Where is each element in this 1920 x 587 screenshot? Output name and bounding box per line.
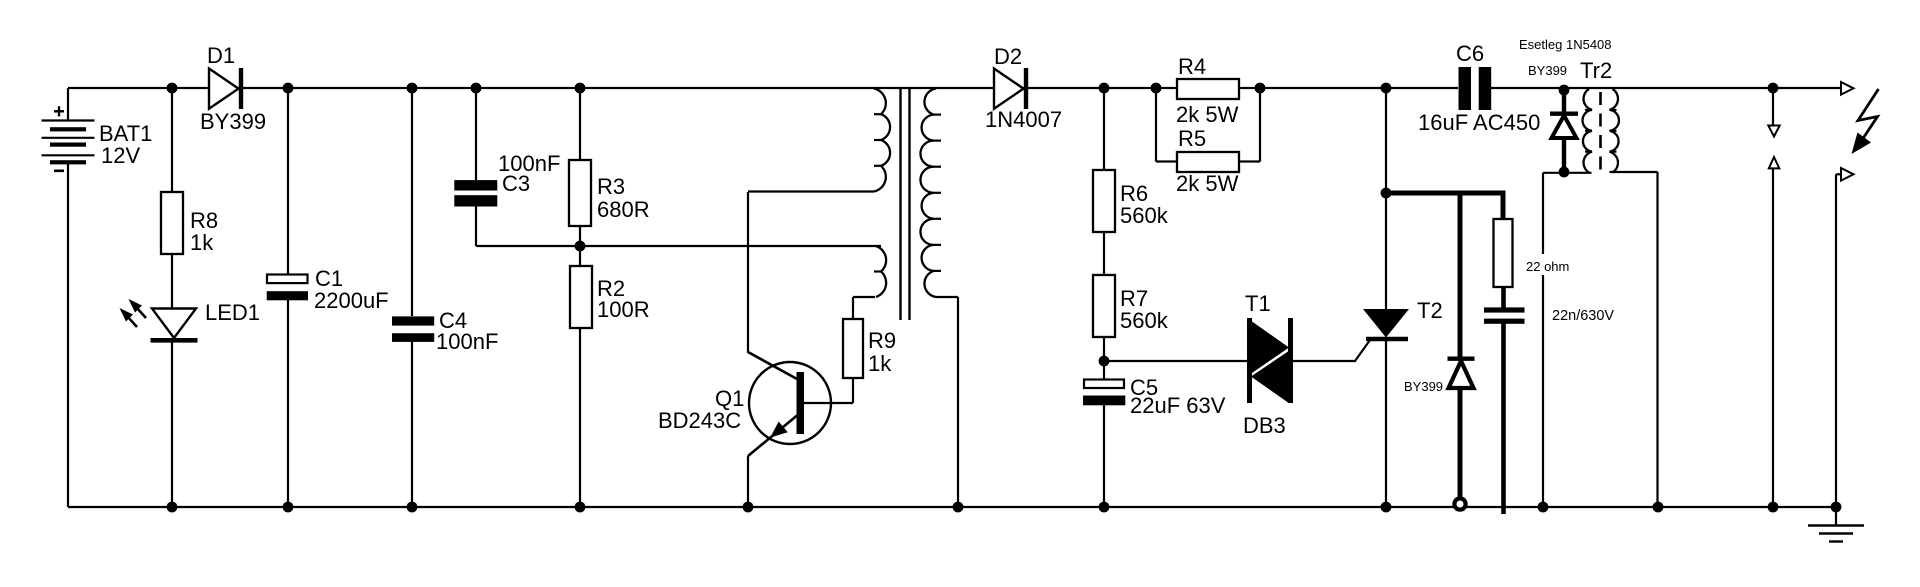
diode D1 (209, 68, 243, 109)
node bottom rail / T2 (1381, 502, 1392, 513)
label 1N4007 (985, 107, 1062, 132)
label D2 (994, 44, 1022, 69)
wire junction to T1 (1104, 360, 1247, 362)
resistor R9 (843, 319, 863, 378)
svg-text:D1: D1 (207, 43, 235, 68)
connector ring (1454, 498, 1465, 509)
transformer Tr1 core (901, 88, 910, 320)
svg-text:C3: C3 (502, 171, 530, 196)
label Esetleg 1N5408 (1519, 37, 1612, 52)
wire Tr2 primary bottom lead (1543, 172, 1592, 174)
label 12V (101, 143, 140, 168)
svg-text:680R: 680R (597, 197, 650, 222)
svg-text:2k 5W: 2k 5W (1176, 102, 1239, 127)
svg-text:22n/630V: 22n/630V (1552, 308, 1614, 324)
resistor R7 (1093, 275, 1115, 337)
wire C3 bottom (475, 207, 477, 247)
wire R8 to LED1 (171, 254, 173, 309)
wire node to Tr1 feedback winding (580, 245, 881, 247)
wire C3 top (475, 88, 477, 180)
label C5 (1130, 375, 1158, 400)
node Tr2 primary bottom (1559, 167, 1570, 178)
label R2 (597, 276, 625, 301)
label BD243C (658, 408, 741, 433)
node top rail / R4 right (1255, 83, 1266, 94)
svg-text:DB3: DB3 (1243, 413, 1286, 438)
wire C4 top (411, 88, 413, 316)
node bottom rail / Tr2 secondary (1653, 502, 1664, 513)
svg-text:1k: 1k (190, 230, 214, 255)
svg-text:Tr2: Tr2 (1580, 58, 1612, 83)
wire T2 cathode (1385, 341, 1387, 507)
label Tr2 (1580, 58, 1612, 83)
ground (1808, 507, 1864, 542)
node top rail / T2 (1381, 83, 1392, 94)
wire R3 bottom (579, 226, 581, 246)
svg-text:16uF AC450: 16uF AC450 (1418, 110, 1540, 135)
capacitor C1 (267, 275, 308, 301)
transformer Tr1 secondary winding (920, 89, 941, 298)
label 22uF 63V (1130, 393, 1226, 418)
label 560k (R6) (1120, 203, 1169, 228)
wire R6 top (1103, 88, 1105, 170)
resistor R8 (161, 192, 183, 254)
wire Tr1 feedback bottom to R9 (853, 296, 875, 298)
svg-text:T2: T2 (1417, 298, 1443, 323)
capacitor 22n/630V (1484, 307, 1525, 323)
wire Tr1 secondary bottom (936, 297, 958, 507)
label Q1 (715, 386, 744, 411)
wire R5 left stub (1156, 88, 1177, 162)
svg-text:R3: R3 (597, 174, 625, 199)
wire Tr2 secondary bottom lead (1610, 171, 1658, 173)
resistor 22 ohm (1494, 219, 1513, 287)
svg-text:Esetleg 1N5408: Esetleg 1N5408 (1519, 37, 1612, 52)
svg-text:22 ohm: 22 ohm (1526, 259, 1569, 274)
label R5 (1178, 126, 1206, 151)
label DB3 (1243, 413, 1286, 438)
wire 22ohm to 22n cap (1501, 287, 1506, 308)
resistor R2 (570, 266, 592, 328)
node bottom rail / Tr2 primary (1538, 502, 1549, 513)
wire C1 top (287, 88, 289, 275)
diac T1 (1250, 318, 1291, 403)
node R7/C5/T1 junction (1099, 356, 1110, 367)
node bottom rail / C1 (283, 502, 294, 513)
terminal output return (1836, 168, 1854, 181)
wire Tr1 primary bottom to collector (748, 190, 874, 192)
thyristor T2 (1355, 309, 1409, 361)
wire R6 to R7 (1103, 232, 1105, 275)
wire spark gap upper (1772, 88, 1774, 126)
wire R5 right stub (1239, 88, 1260, 162)
wire R9 bottom lead (852, 378, 854, 403)
label 22n/630V (1552, 308, 1614, 324)
label 680R (597, 197, 650, 222)
node R3/R2/C3 junction (575, 241, 586, 252)
wire R7 to C5 (1103, 337, 1105, 380)
wire C3 to node (476, 245, 580, 247)
label R9 (868, 328, 896, 353)
label BY399 (D1) (200, 109, 266, 134)
svg-text:R4: R4 (1178, 54, 1206, 79)
spark gap lower electrode (1769, 157, 1780, 168)
label C4 (439, 308, 467, 333)
label 100nF (C4) (436, 329, 498, 354)
node bottom rail / C4 (407, 502, 418, 513)
label C6 (1456, 41, 1484, 66)
label 22 ohm (1522, 254, 1574, 275)
svg-text:560k: 560k (1120, 203, 1169, 228)
label LED1 (205, 300, 260, 325)
capacitor C6 (1459, 67, 1492, 110)
transformer Tr2 primary winding (1583, 89, 1592, 173)
svg-text:LED1: LED1 (205, 300, 260, 325)
node top rail / R3 (575, 83, 586, 94)
wire return terminal down (1835, 174, 1837, 507)
label R6 (1120, 181, 1148, 206)
label 16uF AC450 (1418, 110, 1540, 135)
wire R2 bottom (579, 328, 581, 507)
node Tr2 primary top (1559, 85, 1570, 96)
spark lightning bolt (1852, 89, 1879, 154)
resistor R4 (1177, 79, 1239, 99)
svg-text:BY399: BY399 (1528, 63, 1567, 78)
node bottom rail / LED branch (167, 502, 178, 513)
label 100R (597, 297, 650, 322)
svg-text:R9: R9 (868, 328, 896, 353)
label 1k (R8) (190, 230, 214, 255)
capacitor C5 (1083, 380, 1125, 406)
spark gap upper electrode (1768, 126, 1779, 137)
resistor R6 (1093, 170, 1115, 232)
wire snubber bus (1386, 191, 1502, 196)
diode D2 (994, 68, 1028, 109)
wire R8 top (171, 88, 173, 192)
node T2 / snubber bus (1381, 188, 1392, 199)
wire Tr2 secondary return (1656, 172, 1658, 507)
wire spark gap lower (1772, 169, 1774, 508)
node top rail / spark gap (1768, 83, 1779, 94)
wire left rail (67, 88, 69, 121)
capacitor C3 (454, 180, 497, 206)
svg-text:560k: 560k (1120, 308, 1169, 333)
wire collector vertical (747, 192, 749, 353)
wire 22n cap to bottom (1501, 324, 1506, 515)
label T1 (1245, 291, 1271, 316)
svg-text:D2: D2 (994, 44, 1022, 69)
svg-text:BD243C: BD243C (658, 408, 741, 433)
node top rail / R6 branch (1099, 83, 1110, 94)
node top rail / C4 (407, 83, 418, 94)
svg-text:BY399: BY399 (200, 109, 266, 134)
svg-text:2k 5W: 2k 5W (1176, 171, 1239, 196)
wire LED1 bottom (171, 342, 173, 507)
wire C1 bottom (287, 300, 289, 507)
node top rail / R4 left (1151, 83, 1162, 94)
label 1k (R9) (868, 351, 892, 376)
capacitor C4 (392, 316, 434, 342)
label 100nF (C3) (498, 151, 560, 176)
label BY399 (snubber) (1404, 379, 1443, 394)
wire top rail right segment (1491, 87, 1841, 89)
node bottom rail / C5 (1099, 502, 1110, 513)
label C3 (502, 171, 530, 196)
label 560k (R7) (1120, 308, 1169, 333)
node bottom rail / Q1 emitter (743, 502, 754, 513)
wire T1 to T2 gate (1293, 360, 1356, 362)
wire C4 bottom (411, 342, 413, 507)
node top rail / C3 (471, 83, 482, 94)
transformer Tr2 secondary winding (1610, 89, 1619, 173)
label C1 (315, 266, 343, 291)
svg-text:R5: R5 (1178, 126, 1206, 151)
wire R3 top (579, 88, 581, 160)
label R8 (190, 208, 218, 233)
node bottom rail / R2 (575, 502, 586, 513)
diode BY399 (Tr2) (1550, 89, 1578, 172)
battery BAT1 (42, 106, 95, 171)
transformer Tr2 core (1599, 92, 1602, 170)
svg-text:C6: C6 (1456, 41, 1484, 66)
svg-text:BY399: BY399 (1404, 379, 1443, 394)
node bottom rail / return (1831, 502, 1842, 513)
svg-text:T1: T1 (1245, 291, 1271, 316)
svg-text:100nF: 100nF (436, 329, 498, 354)
node bottom rail / Tr1 secondary (953, 502, 964, 513)
label R4 (1178, 54, 1206, 79)
svg-text:12V: 12V (101, 143, 140, 168)
node top rail / R8 branch (167, 83, 178, 94)
transformer Tr1 feedback winding (874, 246, 886, 297)
resistor R3 (569, 160, 591, 226)
label D1 (207, 43, 235, 68)
transistor Q1 (748, 352, 831, 456)
svg-text:1k: 1k (868, 351, 892, 376)
resistor R5 (1177, 152, 1239, 172)
LED LED1 (120, 299, 198, 343)
wire BY399 branch bottom (1458, 387, 1463, 499)
label R3 (597, 174, 625, 199)
wire T2 anode (1385, 88, 1387, 310)
node bottom rail / spark gap (1768, 502, 1779, 513)
svg-text:2200uF: 2200uF (314, 288, 389, 313)
label T2 (1417, 298, 1443, 323)
wire R9 top lead (852, 297, 854, 319)
wire BY399 branch top (1458, 191, 1463, 358)
diode BY399 (snubber) (1448, 359, 1475, 388)
wire top rail left segment (68, 87, 1458, 89)
label 2200uF (314, 288, 389, 313)
wire left rail lower (67, 163, 69, 507)
wire Q1 base to R9 (804, 402, 853, 404)
wire Tr2 primary return (1542, 173, 1544, 507)
label 2k 5W (R4) (1176, 102, 1239, 127)
wire snubber branch down (1501, 191, 1506, 220)
svg-text:22uF 63V: 22uF 63V (1130, 393, 1226, 418)
label 2k 5W (R5) (1176, 171, 1239, 196)
wire R2 top (579, 246, 581, 266)
transformer Tr1 primary winding (874, 89, 890, 192)
wire C5 bottom (1103, 405, 1105, 507)
label BY399 (Tr2) (1528, 63, 1567, 78)
wire emitter to bottom rail (747, 456, 749, 507)
node top rail / C1 (283, 83, 294, 94)
wire bottom rail (68, 506, 1836, 508)
label BAT1 (99, 121, 152, 146)
terminal output HV (1841, 82, 1854, 95)
svg-text:1N4007: 1N4007 (985, 107, 1062, 132)
svg-text:100R: 100R (597, 297, 650, 322)
label R7 (1120, 286, 1148, 311)
